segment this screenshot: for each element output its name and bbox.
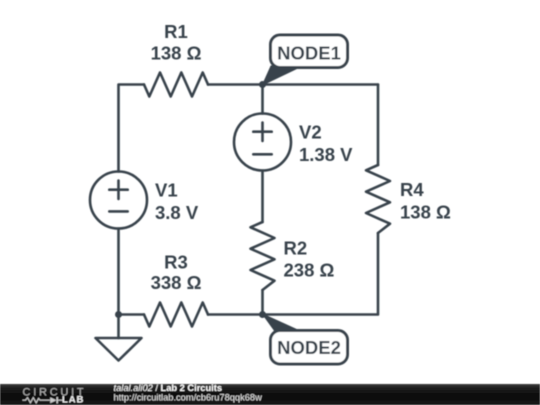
wire R1 to node1 to right corner [208, 83, 378, 86]
node B dot (NODE2) [259, 311, 266, 318]
wire top-left corner to R1 [119, 85, 145, 172]
wire bottom node to R3 [119, 313, 145, 316]
node ground junction dot [115, 311, 122, 318]
svg-text:R1: R1 [164, 21, 188, 42]
wire right rail bottom [263, 233, 379, 315]
NODE2 callout box [271, 331, 348, 365]
svg-text:V1: V1 [155, 180, 178, 201]
wire V2 to R2 [261, 171, 264, 223]
resistor R3 [144, 303, 208, 327]
resistor R1 [144, 73, 208, 97]
svg-text:3.8 V: 3.8 V [155, 202, 199, 223]
wire node1 to V2 [261, 85, 264, 114]
svg-text:338 Ω: 338 Ω [151, 272, 202, 293]
wire V1 to bottom node [117, 229, 120, 315]
voltage source V1 [90, 172, 147, 229]
wire R2 to node2 [261, 290, 264, 315]
NODE1 callout pointer [263, 66, 303, 85]
svg-text:1.38 V: 1.38 V [299, 144, 353, 165]
wire right rail top [377, 85, 380, 166]
CircuitLab logo zigzag + diode [23, 398, 64, 403]
svg-text:NODE2: NODE2 [277, 337, 341, 358]
svg-text:138 Ω: 138 Ω [151, 43, 202, 64]
footer bar [0, 384, 540, 405]
svg-text:138 Ω: 138 Ω [400, 202, 451, 223]
svg-text:R4: R4 [400, 179, 424, 200]
resistor R2 [251, 222, 275, 290]
NODE1 callout box [271, 35, 348, 68]
svg-text:V2: V2 [299, 122, 322, 143]
NODE2 callout pointer [263, 314, 303, 332]
resistor R4 [366, 165, 390, 233]
node A dot (NODE1) [259, 81, 266, 88]
svg-text:R2: R2 [284, 237, 308, 258]
ground [117, 315, 120, 339]
svg-text:238 Ω: 238 Ω [284, 260, 335, 281]
svg-text:NODE1: NODE1 [277, 42, 341, 63]
svg-text:R3: R3 [164, 251, 188, 272]
svg-text:LAB: LAB [62, 395, 84, 405]
svg-text:http://circuitlab.com/cb6ru78q: http://circuitlab.com/cb6ru78qqk68w [114, 392, 263, 402]
wire R3 to node2 [208, 313, 263, 316]
voltage source V2 [234, 114, 291, 171]
